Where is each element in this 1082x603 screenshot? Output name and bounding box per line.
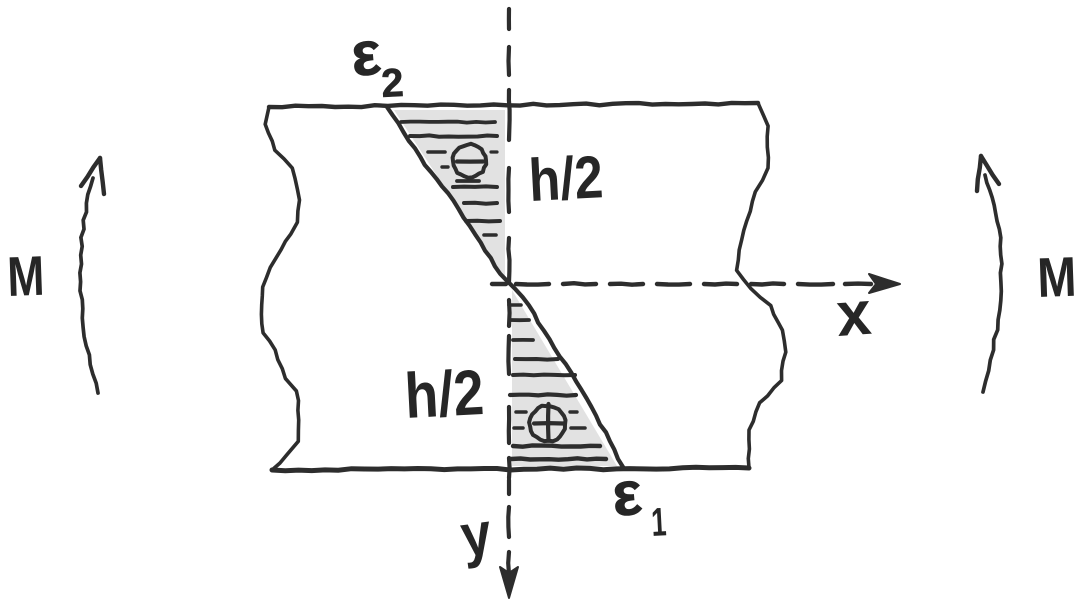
circled plus symbol (tension)	[529, 406, 565, 442]
beam right broken edge	[737, 103, 786, 468]
beam left broken edge	[261, 107, 299, 470]
y axis arrowhead	[500, 567, 518, 598]
beam bottom edge	[272, 467, 749, 471]
strain distribution diagonal line	[387, 107, 623, 467]
svg-text:M: M	[6, 244, 45, 308]
beam top edge	[269, 103, 758, 107]
upper strain triangle shaded area	[394, 110, 505, 280]
right moment arc arrow	[983, 175, 1002, 392]
lower strain triangle shaded area	[512, 290, 617, 466]
left moment arc arrow	[80, 178, 98, 393]
svg-text:h/2: h/2	[527, 143, 604, 214]
svg-text:ε: ε	[609, 459, 644, 530]
svg-text:ε: ε	[348, 19, 383, 90]
y axis dashed centerline	[507, 9, 511, 29]
svg-text:M: M	[1036, 245, 1077, 309]
svg-text:1: 1	[650, 500, 667, 545]
x axis dashed line	[492, 282, 506, 286]
svg-text:x: x	[834, 279, 874, 350]
svg-text:2: 2	[380, 61, 405, 106]
x axis arrowhead	[869, 274, 900, 293]
circled minus symbol (compression)	[453, 144, 487, 178]
right moment arrowhead	[977, 156, 981, 191]
left moment arrowhead	[81, 158, 100, 186]
svg-text:h/2: h/2	[403, 356, 486, 432]
hatching of lower (tension) triangle	[509, 303, 521, 307]
hatching of upper (compression) triangle	[401, 122, 495, 123]
